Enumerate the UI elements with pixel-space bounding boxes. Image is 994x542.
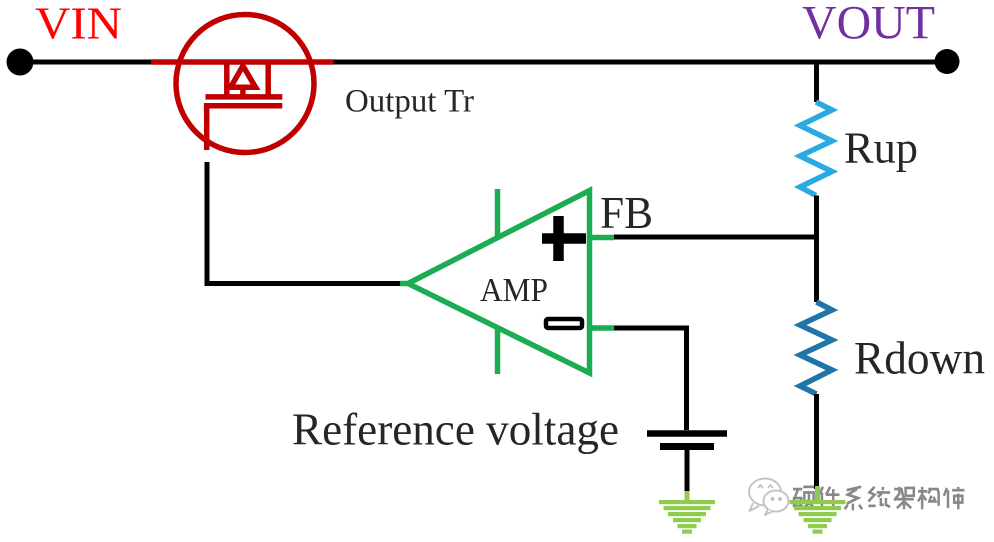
op-amp top supply pin: [495, 189, 501, 238]
watermark text gray strokes: [793, 487, 964, 511]
watermark logo chat bubbles: [749, 479, 789, 516]
wire VOUT to Rup: [814, 62, 819, 102]
transistor arrow triangle: [231, 66, 256, 87]
ground symbol below battery: [659, 491, 715, 534]
wire battery to ground: [685, 450, 690, 493]
wire gate to op-amp output: [207, 162, 402, 284]
watermark text white halo: [793, 487, 964, 511]
op-amp plus input stub: [590, 235, 615, 241]
watermark logo bubble eyes: [758, 485, 781, 500]
svg-text:Output Tr: Output Tr: [345, 84, 474, 120]
transistor gate lead down: [204, 106, 210, 150]
transistor drain stub: [265, 62, 271, 97]
op-amp minus sign: [546, 319, 582, 328]
transistor arrow stem: [240, 87, 246, 97]
op-amp minus input stub: [590, 325, 615, 331]
op-amp bottom supply pin: [495, 327, 501, 374]
svg-text:AMP: AMP: [480, 272, 548, 309]
battery V1 short plate: [660, 443, 714, 450]
node VIN terminal dot: [7, 49, 34, 76]
ground symbol below Rdown: [790, 486, 846, 534]
transistor body circle: [176, 15, 314, 153]
svg-text:VOUT: VOUT: [802, 0, 935, 50]
svg-text:FB: FB: [600, 188, 653, 238]
svg-text:Rup: Rup: [844, 122, 918, 172]
wire transistor drain to VOUT: [333, 60, 947, 65]
transistor source-drain red wire: [151, 59, 334, 65]
transistor source stub: [224, 62, 230, 97]
transistor gate plate: [204, 103, 282, 109]
op-amp plus sign: [542, 216, 586, 261]
wire Rup to FB node: [814, 196, 819, 240]
battery V1 reference voltage long plate: [647, 430, 727, 437]
wire FB node to plus input: [614, 235, 819, 240]
wire FB node to Rdown: [814, 235, 819, 302]
svg-text:VIN: VIN: [35, 0, 122, 49]
node VOUT terminal dot: [935, 49, 960, 74]
op-amp output stub: [400, 281, 412, 287]
wire minus input to reference: [614, 328, 687, 430]
svg-text:Rdown: Rdown: [854, 333, 985, 385]
transistor Q1 PMOS pass element: [151, 15, 334, 153]
resistor Rdown: [800, 302, 832, 394]
op-amp U1 AMP: [400, 189, 614, 374]
resistor Rup: [800, 102, 832, 196]
op-amp triangle body: [408, 191, 590, 374]
wire VIN input to transistor source: [20, 60, 152, 65]
wire Rdown to ground: [814, 394, 819, 489]
transistor channel bar: [206, 94, 283, 100]
svg-text:Reference voltage: Reference voltage: [292, 404, 619, 455]
